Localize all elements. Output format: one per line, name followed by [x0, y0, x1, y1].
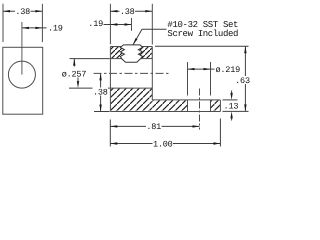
.81 / 1.00 left extension line	[109, 120, 111, 147]
main view: extension line left of top .38 dim	[109, 4, 111, 44]
main view: dimension .38 line (top)	[110, 10, 152, 12]
o.257 up arrow	[73, 59, 75, 67]
left view: dim .19 arrows	[22, 27, 43, 29]
vertical .38 arrows	[99, 73, 101, 111]
left view: vertical centerline of hole	[21, 22, 23, 75]
1.00 arrows	[110, 142, 220, 144]
.63 dimension line	[244, 46, 246, 111]
1.00 text	[153, 139, 174, 149]
left view: dimension .19 line	[22, 27, 47, 29]
o.257 down arrow	[77, 78, 79, 89]
.81 arrows	[110, 125, 199, 127]
main view: bore bottom edge (o.257)	[110, 87, 152, 89]
left view: dimension .38 line	[3, 10, 42, 12]
svg-text:.13: .13	[224, 101, 239, 111]
left view: body rectangle	[3, 47, 43, 114]
bore horizontal centerline (dash-dot)	[94, 72, 170, 74]
main view: dim .19 arrows	[110, 23, 131, 25]
o.219 dimension line	[188, 68, 215, 70]
hatch: boss right block	[140, 47, 152, 58]
o.219 right extension / hole edge	[210, 62, 212, 112]
svg-text:.38: .38	[15, 7, 30, 17]
leader arrowhead	[133, 38, 138, 45]
o.257 top extension line	[70, 58, 110, 60]
o.219 arrows	[188, 68, 211, 70]
.13 bottom arrow (outside, pointing up)	[230, 111, 232, 120]
main view: screw centerline extension tick	[131, 18, 133, 31]
.81 dimension line	[110, 125, 199, 127]
left view: extension line left of .38 width dim	[2, 4, 4, 42]
main view: dimension .19 line (to screw center)	[104, 24, 132, 26]
left view: dim .38 text	[15, 7, 31, 17]
set screw with thread zigzag	[120, 45, 142, 62]
vertical .38 text	[93, 87, 109, 97]
svg-text:.38: .38	[93, 87, 108, 97]
left view: hole circle o.257	[8, 61, 35, 88]
.13 top arrow (outside, pointing down)	[230, 91, 232, 100]
.13 bottom extension line (shared with .63)	[223, 110, 249, 112]
.13 top extension line	[223, 99, 238, 101]
hatch: lower block	[111, 89, 152, 111]
hatch: flange left of hole	[152, 100, 187, 111]
bottom extension for vertical .38	[94, 111, 110, 113]
.63 text	[235, 76, 251, 86]
svg-text:ø.257: ø.257	[62, 69, 87, 79]
svg-text:ø.219: ø.219	[216, 65, 241, 75]
svg-text:Screw Included: Screw Included	[167, 29, 238, 39]
.63 top extension line	[155, 45, 249, 47]
hatch: flange right block	[211, 100, 220, 111]
o.219 left extension / hole edge	[187, 62, 189, 112]
svg-text:.63: .63	[235, 76, 250, 86]
left view: extension line right of .38 width dim	[41, 4, 43, 42]
svg-text:.19: .19	[48, 24, 63, 34]
main view: part outline	[110, 47, 220, 112]
main view: extension line right of top .38 dim	[151, 4, 153, 45]
left view: dim .38 arrows	[3, 10, 42, 12]
svg-text:.19: .19	[88, 19, 103, 29]
.81 text	[146, 122, 162, 132]
1.00 dimension line	[110, 143, 220, 145]
.63 arrows	[244, 46, 246, 111]
1.00 right extension line	[219, 119, 221, 147]
main view: dim .38 arrows (top)	[110, 10, 152, 12]
hatch: boss left block	[111, 47, 123, 58]
main view: dim .38 text (top)	[120, 7, 136, 17]
leader line to set screw	[133, 29, 167, 45]
o.257 bottom extension line	[69, 87, 110, 89]
svg-text:1.00: 1.00	[153, 139, 173, 149]
svg-text:.81: .81	[146, 122, 161, 132]
svg-text:.38: .38	[120, 7, 135, 17]
main view: bore top edge (o.257)	[110, 58, 152, 60]
vertical .38 dimension line	[100, 73, 102, 111]
flange hole vertical centerline (dash-dot)	[199, 89, 201, 130]
